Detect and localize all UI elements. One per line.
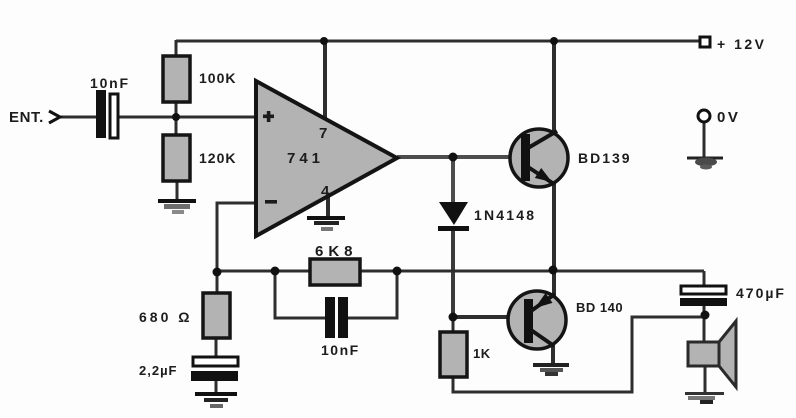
svg-text:6K8: 6K8	[315, 243, 358, 260]
svg-text:+ 12V: + 12V	[717, 36, 766, 52]
svg-text:BD139: BD139	[578, 150, 632, 166]
svg-text:120K: 120K	[199, 150, 236, 166]
svg-text:10nF: 10nF	[321, 342, 360, 358]
svg-text:10nF: 10nF	[90, 75, 130, 91]
svg-text:100K: 100K	[199, 70, 236, 86]
svg-text:470µF: 470µF	[736, 285, 786, 301]
svg-text:0V: 0V	[717, 109, 740, 126]
svg-text:2,2µF: 2,2µF	[139, 363, 178, 378]
svg-text:741: 741	[287, 150, 324, 167]
svg-text:ENT.: ENT.	[9, 109, 44, 126]
svg-text:4: 4	[321, 183, 330, 200]
svg-text:1K: 1K	[473, 346, 491, 361]
svg-text:1N4148: 1N4148	[474, 207, 536, 223]
svg-text:680 Ω: 680 Ω	[139, 309, 192, 325]
svg-text:BD 140: BD 140	[576, 300, 623, 315]
svg-text:7: 7	[319, 125, 327, 142]
